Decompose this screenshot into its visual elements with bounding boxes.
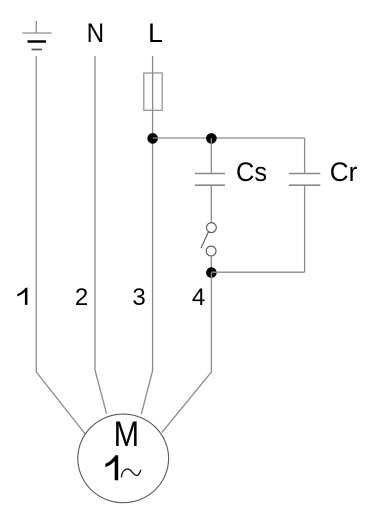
motor label 1~ [105,455,140,480]
wire 4 (junction to motor) [162,273,211,433]
svg-text:2: 2 [75,284,88,311]
svg-text:Cs: Cs [236,157,267,187]
wire switch to junction [210,256,212,268]
junction dot (Cs branch) [206,133,217,144]
motor M [78,414,169,503]
pin label 1 [17,288,27,305]
svg-text:Cr: Cr [330,157,358,187]
svg-text:M: M [114,415,140,454]
capacitor Cr [289,174,320,186]
wire Cs to switch [210,186,212,223]
wire Cr branch lower [304,186,306,272]
wire 2 (N to motor) [95,56,107,414]
wire 1 (earth to motor) [36,56,85,434]
junction dot (L / top rail) [147,133,158,144]
wire bottom rail [211,271,304,273]
wire Cs branch upper [210,138,212,173]
svg-text:4: 4 [192,284,205,311]
switch (centrifugal) [201,223,216,256]
ground [23,21,52,50]
capacitor Cs [195,174,225,186]
wire top rail [153,137,305,139]
wire 3 (L to motor) [141,56,152,414]
wire Cr branch upper [304,138,306,173]
svg-text:L: L [148,18,163,48]
junction dot (bottom rail) [206,267,217,278]
svg-text:N: N [87,18,105,48]
svg-text:3: 3 [132,284,145,311]
fuse F1 [144,73,162,110]
